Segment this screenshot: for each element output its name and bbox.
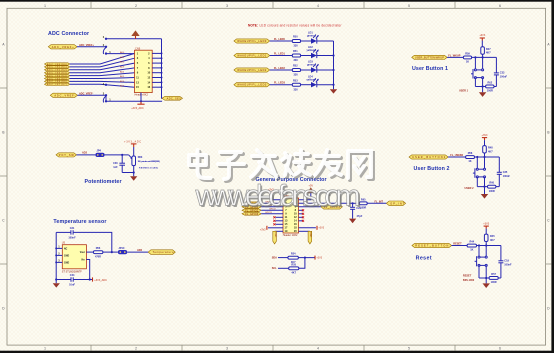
svg-text:USER 2: USER 2: [465, 187, 475, 190]
svg-text:FL_LED3: FL_LED3: [274, 82, 285, 85]
svg-text:R52: R52: [293, 65, 298, 68]
no-connect X pin 11: [273, 216, 283, 218]
ADC input port stack (8 ports): [45, 63, 70, 86]
svg-text:ADC Connector: ADC Connector: [48, 31, 89, 37]
svg-text:R55: R55: [291, 263, 296, 266]
svg-text:Header 10X2: Header 10X2: [283, 234, 298, 237]
svg-text:4K7: 4K7: [486, 52, 491, 55]
R59 labels: [465, 52, 470, 63]
ground (GP C29): [349, 219, 356, 224]
svg-text:www.elecfans.com: www.elecfans.com: [195, 179, 361, 212]
svg-text:ADC_VREF-: ADC_VREF-: [54, 94, 75, 97]
power +3V3_ADC (bottom of CN9): [137, 93, 144, 105]
svg-text:330: 330: [294, 45, 299, 48]
svg-text:6: 6: [499, 4, 501, 8]
jumper JP10: [118, 250, 127, 254]
svg-text:FL_LED2: FL_LED2: [274, 67, 285, 70]
C34 labels: [69, 274, 75, 286]
svg-text:RESMEC15(SE): RESMEC15(SE): [139, 168, 158, 170]
ground UB1: [479, 87, 486, 97]
svg-text:ADC_IN6(S6): ADC_IN6(S6): [47, 80, 67, 83]
port USER_BUTTON1: [412, 55, 447, 59]
svg-text:+3V3_ADC: +3V3_ADC: [124, 141, 141, 144]
resistor R62: [486, 85, 494, 88]
switch SW3 (reset push button): [475, 246, 488, 279]
power +3V3_ADC (temp): [93, 277, 108, 282]
svg-text:JP4: JP4: [97, 150, 102, 153]
zone letters left: [2, 43, 5, 311]
watermark chinese characters: [189, 150, 373, 181]
GP port GPIO2: [242, 209, 261, 212]
junction dots Reset rail: [478, 244, 487, 246]
svg-text:WAKEUP/FL_LED0: WAKEUP/FL_LED0: [237, 40, 267, 43]
svg-text:3: 3: [226, 4, 228, 8]
svg-text:100nF: 100nF: [68, 236, 76, 239]
LED common bus wire: [333, 41, 335, 89]
svg-text:ADC_IN1(S1): ADC_IN1(S1): [47, 66, 67, 69]
capacitor C33: [494, 57, 499, 86]
svg-text:2: 2: [135, 347, 137, 351]
wire ADC_VREF+ to jumper: [77, 46, 106, 48]
junction dot ground UB2: [483, 186, 485, 188]
svg-text:R59: R59: [465, 52, 470, 55]
svg-text:ADC_VREF-: ADC_VREF-: [79, 92, 93, 95]
svg-text:1: 1: [44, 4, 46, 8]
R62 labels: [487, 81, 493, 92]
wire pin 19 stub: [275, 230, 283, 232]
port POT (AD2): [56, 153, 77, 157]
svg-text:330: 330: [294, 59, 299, 62]
R55 labels: [291, 263, 296, 274]
jumper P9 pin 3: [105, 84, 107, 86]
svg-text:USER 1: USER 1: [459, 90, 469, 93]
svg-text:FL_USER2: FL_USER2: [450, 154, 463, 157]
net labels GPIO0-3: [265, 202, 276, 215]
svg-text:+3V3: +3V3: [482, 134, 489, 137]
wire resistor to LED LD2: [301, 55, 311, 57]
wire bottom rail UB2: [477, 186, 499, 188]
zone divider ticks right: [546, 88, 552, 264]
net labels AD0-AD7: [120, 51, 125, 88]
R48 labels: [488, 147, 493, 154]
ground UB2: [481, 187, 488, 199]
header P58 body: [283, 198, 299, 233]
svg-text:ADC_VREF+: ADC_VREF+: [52, 46, 75, 49]
svg-text:+3V3: +3V3: [316, 257, 322, 260]
svg-text:R57: R57: [491, 273, 496, 276]
resistor R52: [292, 69, 300, 72]
wire rail UB2: [475, 156, 500, 158]
wire port to R59: [447, 56, 463, 58]
jumper JP4: [95, 153, 104, 157]
svg-text:yellow: yellow: [307, 49, 315, 52]
svg-text:RESET: RESET: [463, 275, 472, 278]
no-connect X pin 8: [299, 209, 305, 211]
C30 labels: [113, 162, 118, 169]
switch SW2 (push button): [473, 157, 486, 187]
svg-text:ADC_IN0(S0): ADC_IN0(S0): [47, 63, 67, 66]
power +3V3_ADC (pot): [124, 141, 141, 156]
svg-text:User Button 1: User Button 1: [412, 66, 448, 72]
svg-text:ADC_IN3(S3): ADC_IN3(S3): [47, 72, 67, 75]
jumper P9 shunt bracket: [103, 96, 106, 103]
svg-text:47pF: 47pF: [357, 215, 363, 218]
svg-text:C33: C33: [500, 72, 505, 75]
R56 labels: [95, 247, 101, 258]
svg-text:+3V3: +3V3: [483, 222, 490, 225]
port FL_LED0: [234, 39, 270, 43]
R60 labels: [489, 182, 495, 193]
wire rail UB1: [472, 56, 497, 58]
power +3V3 (UB2): [482, 134, 489, 146]
wire pin4 east (long): [299, 202, 353, 204]
P58 pin numbers: [285, 198, 298, 234]
port FL_LED1: [234, 53, 270, 57]
junction dots UB2 rail: [476, 156, 485, 158]
U5 left pin numbers: [58, 245, 60, 263]
svg-text:B3S-1000: B3S-1000: [463, 279, 475, 282]
no-connect X pin 12: [299, 216, 305, 218]
LED LD3: [311, 64, 319, 73]
ground Reset: [483, 278, 490, 288]
wires CN9 right pins to bus: [152, 53, 161, 87]
junction dots UB1 rail: [474, 56, 483, 58]
svg-text:B: B: [2, 131, 4, 135]
sheet outer border right: [551, 0, 554, 353]
bus junctions: [332, 54, 334, 85]
svg-text:R56: R56: [96, 247, 101, 250]
power +5V arrow (GP right): [307, 184, 314, 193]
capacitor C31: [71, 230, 73, 234]
junction dot ground Reset: [485, 277, 487, 279]
svg-text:GND: GND: [64, 262, 69, 264]
wire R55 up to pullup node: [299, 258, 305, 269]
R54 labels: [291, 253, 296, 264]
top wire right of C31: [73, 232, 112, 252]
potentiometer R63 body: [132, 156, 136, 166]
wire P8 pin1 to CN9 pin 1: [106, 53, 135, 55]
junction dots temp left rail: [55, 247, 57, 263]
junction dot temp gnd corner: [55, 278, 57, 280]
GP port GPIO0: [242, 202, 261, 205]
svg-text:R60: R60: [489, 182, 494, 185]
svg-text:+3V3: +3V3: [260, 229, 266, 232]
wire R54 to +3V3: [298, 257, 314, 259]
GP port GPIO3: [242, 212, 261, 215]
svg-text:AD2: AD2: [82, 152, 88, 155]
svg-text:Temperature sensor: Temperature sensor: [53, 219, 106, 225]
R47 labels: [486, 48, 491, 55]
U5 left pin stubs: [56, 248, 62, 262]
power +3V3_ADC arrow (top): [131, 30, 139, 38]
svg-text:R53: R53: [293, 79, 298, 82]
port USER_BUTTON2: [409, 155, 448, 159]
svg-text:C19: C19: [504, 260, 509, 263]
zone divider ticks left: [0, 88, 7, 264]
wire pin 17 to +3V3: [268, 227, 283, 229]
wires GP ports to pins 3,5,7,9: [261, 203, 283, 214]
wire port to R58: [448, 156, 466, 158]
wire port to JP4: [77, 154, 96, 156]
wire rail Reset: [477, 245, 501, 247]
wire pin1 to +3V3 bar: [271, 192, 283, 199]
svg-text:Vout: Vout: [80, 251, 85, 254]
svg-text:yellow: yellow: [307, 78, 315, 81]
svg-text:AD6: AD6: [137, 249, 143, 252]
svg-text:C34: C34: [70, 274, 75, 277]
svg-text:CN9: CN9: [135, 46, 141, 50]
wire LED LD2 to bus: [317, 55, 334, 57]
C33 labels: [500, 72, 508, 79]
no-connect X pin 15: [273, 223, 283, 225]
LED LD2: [311, 49, 319, 58]
wire Vin down: [86, 260, 89, 280]
port GP_INT: [386, 201, 405, 206]
svg-text:FL_LED0: FL_LED0: [274, 38, 285, 41]
svg-text:R45: R45: [490, 235, 495, 238]
svg-text:+3V3_ADC: +3V3_ADC: [94, 279, 107, 282]
wire pin6 to port: [299, 206, 322, 208]
svg-text:User Button 2: User Button 2: [414, 166, 450, 172]
zone numbers bottom: [44, 347, 501, 351]
C31 labels: [68, 227, 76, 239]
svg-text:R62: R62: [488, 81, 493, 84]
svg-text:GND: GND: [274, 232, 276, 237]
wire bottom rail UB1: [475, 86, 496, 88]
wire LED LD4 to bus: [317, 84, 334, 86]
resistor R48 (pullup): [483, 146, 487, 157]
junction dot ground UB1: [482, 85, 484, 87]
svg-text:FL_LED1: FL_LED1: [274, 53, 285, 56]
ground (pot): [130, 173, 137, 181]
vertical port GND (right): [308, 231, 312, 244]
wire bottom rail Reset: [479, 277, 501, 279]
svg-text:5: 5: [408, 347, 410, 351]
svg-text:10nF: 10nF: [69, 283, 75, 286]
R57 labels: [491, 273, 497, 284]
resistor R58: [466, 156, 475, 159]
port GP_IO (right): [321, 205, 342, 210]
svg-text:ADC_SE0: ADC_SE0: [167, 97, 182, 100]
svg-text:POT_SW: POT_SW: [59, 154, 75, 157]
svg-text:C35: C35: [503, 171, 508, 174]
svg-text:LED colours and resistor value: LED colours and resistor values will be …: [260, 24, 343, 28]
resistor R53: [292, 83, 300, 86]
svg-text:GND: GND: [309, 232, 311, 237]
ground (LED bus): [330, 89, 337, 93]
svg-text:FL_WKUP: FL_WKUP: [448, 54, 460, 57]
svg-text:R54: R54: [291, 253, 296, 256]
svg-text:1K: 1K: [470, 249, 473, 252]
svg-text:C30: C30: [113, 162, 118, 165]
R65 labels: [360, 198, 366, 209]
junction dot pullup node: [304, 257, 306, 259]
svg-text:R51: R51: [293, 50, 298, 53]
svg-text:B: B: [547, 131, 549, 135]
svg-text:green: green: [307, 64, 314, 67]
LED LD4: [311, 78, 319, 87]
wires ADC inputs to connector: [70, 53, 135, 87]
svg-text:+3V3: +3V3: [479, 34, 486, 37]
IC U5 temperature sensor body: [62, 245, 86, 269]
svg-text:470R: 470R: [95, 255, 101, 258]
svg-text:WAKEUP/FL_LED3: WAKEUP/FL_LED3: [237, 84, 267, 87]
svg-text:100R: 100R: [489, 190, 495, 193]
R58 labels: [468, 152, 473, 163]
wire pin 18 to +3V3: [299, 227, 316, 229]
svg-text:WAKEUP/FL_LED1: WAKEUP/FL_LED1: [237, 55, 267, 58]
svg-text:USER_BUTTON/WKUP: USER_BUTTON/WKUP: [415, 56, 444, 59]
wire resistor to LED LD3: [301, 69, 311, 71]
wire to resistor R65: [353, 202, 360, 204]
svg-text:R50: R50: [293, 36, 298, 39]
wire JP4 to pot wiper: [105, 154, 129, 156]
R44 labels: [470, 241, 475, 252]
zone divider ticks bottom: [91, 345, 455, 351]
svg-text:SDA: SDA: [272, 257, 277, 260]
svg-text:4K7: 4K7: [488, 150, 493, 153]
svg-text:4: 4: [317, 347, 319, 351]
capacitor C35: [497, 157, 502, 187]
svg-text:SW_potentiometer 9305K(15SE): SW_potentiometer 9305K(15SE): [138, 160, 160, 163]
switch SW1 (push button): [471, 57, 484, 86]
capacitor C30: [119, 155, 125, 173]
junction dot pot node: [121, 154, 123, 156]
resistor R47 (pullup): [481, 47, 485, 58]
sheet outer border top: [0, 0, 554, 2]
C29 labels: [356, 207, 363, 218]
wire resistor to LED LD4: [301, 84, 311, 86]
svg-text:Temperature: Temperature: [153, 251, 175, 254]
svg-text:RESET_BUTTON: RESET_BUTTON: [415, 245, 448, 248]
no-connect X pin 10: [299, 213, 305, 215]
svg-text:Vin: Vin: [81, 260, 85, 262]
port FL_LED2: [234, 68, 270, 72]
port ADC_SE0: [162, 96, 182, 100]
wire port to R44: [452, 245, 468, 247]
svg-text:FL_INT: FL_INT: [375, 200, 384, 203]
junction dot pot ground node: [133, 171, 135, 173]
power +3V3 (GP row18): [317, 226, 325, 230]
wire SDA to R48b: [278, 257, 288, 259]
wire pin2 to +5V arrow: [299, 193, 311, 200]
svg-text:4: 4: [317, 4, 319, 8]
resistor R44: [467, 244, 476, 247]
wire FL_LED1 port to resistor: [270, 55, 293, 57]
svg-text:GND: GND: [64, 255, 69, 257]
port FL_LED3: [234, 83, 270, 87]
no-connect X pin 14: [299, 220, 305, 222]
port ADC_VREF+: [48, 45, 77, 49]
jumper P9 pin 2: [105, 94, 107, 96]
zone numbers top: [44, 4, 501, 8]
note text: [248, 24, 342, 28]
jumper P8 pin 2: [105, 46, 107, 48]
bottom rail left segment: [56, 279, 71, 281]
svg-text:1: 1: [44, 347, 46, 351]
power +3V3 (UB1): [479, 34, 486, 47]
svg-text:Potentiometer: Potentiometer: [85, 179, 122, 185]
svg-text:100nF: 100nF: [500, 76, 508, 79]
temp sensor left vertical wire: [55, 232, 57, 279]
resistor R60: [488, 185, 496, 188]
svg-text:NC: NC: [64, 248, 68, 250]
svg-text:ADC_IN4(S4): ADC_IN4(S4): [47, 74, 67, 77]
junction dot temp vout node: [111, 251, 113, 253]
wire R65 to port: [367, 202, 386, 204]
svg-text:+3V3_ADC: +3V3_ADC: [131, 107, 144, 110]
port Temperature: [148, 250, 175, 255]
wire FL_LED0 port to resistor: [270, 40, 293, 42]
svg-text:USER_BUTTON2: USER_BUTTON2: [412, 156, 446, 159]
wire P9 pin1 to ADC_SE port: [106, 95, 162, 101]
wire ADC_VREF- to jumper: [77, 94, 106, 96]
ground (temp sensor): [53, 280, 60, 288]
svg-text:5: 5: [408, 4, 410, 8]
vertical port GND (left): [273, 231, 277, 244]
R63 labels: [138, 156, 160, 169]
svg-text:4K7: 4K7: [490, 239, 495, 242]
svg-text:R44: R44: [470, 241, 475, 244]
bus junction dots: [161, 52, 163, 88]
no-connect X pin 13: [273, 220, 283, 222]
GP port GPIO1: [242, 205, 261, 208]
capacitor C29 (GP): [350, 203, 355, 218]
jumper P8 pin 1: [105, 52, 107, 54]
labels RESET / B3S-1000: [463, 275, 475, 282]
svg-text:6: 6: [499, 347, 501, 351]
resistor R57: [489, 277, 498, 280]
svg-text:3: 3: [226, 347, 228, 351]
wire pot bottom rail: [122, 172, 134, 174]
resistor R56: [93, 251, 103, 254]
wire R56 to JP10: [103, 251, 118, 253]
top wire left of C31: [56, 231, 71, 233]
svg-text:C31: C31: [70, 227, 75, 230]
right bus wire: [162, 39, 165, 99]
svg-text:ADC_IN2(S2): ADC_IN2(S2): [47, 69, 67, 72]
junction dot GP east: [352, 202, 354, 204]
zone divider ticks top: [91, 2, 455, 9]
resistor R55 (SCL pullup): [289, 267, 299, 270]
svg-text:ADC_IN7(S7): ADC_IN7(S7): [47, 83, 67, 86]
svg-text:2: 2: [135, 4, 137, 8]
svg-text:SCL: SCL: [272, 267, 277, 270]
R45 labels: [490, 235, 495, 242]
C35 labels: [503, 171, 511, 178]
wire FL_LED2 port to resistor: [270, 69, 293, 71]
svg-text:+3V3: +3V3: [318, 227, 324, 230]
svg-text:R63: R63: [138, 156, 143, 159]
svg-text:330: 330: [294, 74, 299, 77]
svg-text:NOTE:: NOTE:: [248, 24, 258, 28]
resistor R50: [292, 40, 300, 43]
bottom rail right segment: [73, 279, 92, 281]
svg-text:330: 330: [294, 88, 299, 91]
svg-text:1K: 1K: [466, 60, 469, 63]
port ADC_VREF-: [50, 93, 77, 97]
svg-text:ADC_VREF+: ADC_VREF+: [79, 44, 94, 47]
LED LD1: [311, 35, 319, 44]
svg-text:R47: R47: [486, 48, 491, 51]
resistor R59: [463, 56, 471, 59]
wire top rail to bus: [106, 38, 162, 40]
resistor R51: [292, 54, 300, 57]
resistor R54 (SDA pullup): [288, 256, 299, 259]
sheet outer border bottom: [0, 351, 554, 353]
svg-text:100nF: 100nF: [503, 175, 511, 178]
capacitor C34: [71, 277, 73, 281]
